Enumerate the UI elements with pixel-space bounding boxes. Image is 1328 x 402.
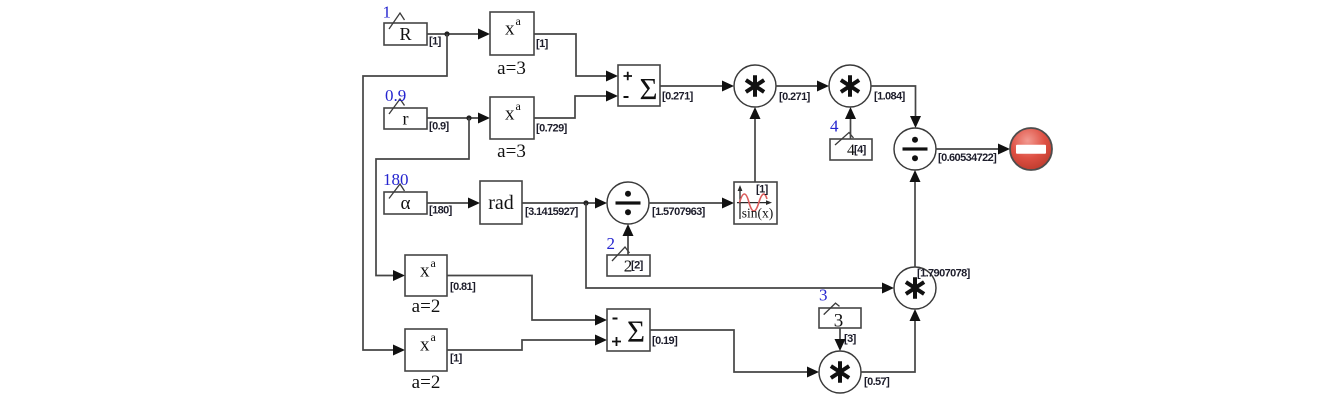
wire multiplier M4 output to multiplier M3 — [861, 309, 921, 372]
wire constant 4 to multiplier M2 — [845, 107, 856, 139]
svg-text:2: 2 — [607, 234, 616, 253]
wire x^a U4 output to sum S2 plus — [447, 335, 607, 351]
constant block alpha — [383, 170, 453, 217]
power block x^a U4 (a=2) — [405, 329, 463, 393]
svg-text:[0.271]: [0.271] — [662, 91, 694, 103]
svg-text:[2]: [2] — [631, 260, 644, 272]
sum block S2 — [607, 309, 678, 351]
svg-text:Σ: Σ — [640, 71, 658, 106]
svg-text:a: a — [516, 14, 522, 28]
constant block 4 — [830, 117, 872, 161]
svg-text:x: x — [505, 19, 515, 40]
divider D1 — [607, 182, 706, 224]
svg-text:[4]: [4] — [854, 144, 867, 156]
svg-text:a=3: a=3 — [497, 141, 526, 162]
svg-text:1: 1 — [383, 3, 392, 22]
svg-text:3: 3 — [819, 286, 828, 305]
wire R branch to x^a U4 — [363, 34, 447, 356]
svg-text:Σ: Σ — [627, 314, 645, 349]
svg-text:3: 3 — [834, 311, 844, 332]
wire rad output to divider D1 — [522, 198, 607, 209]
svg-text:[0.19]: [0.19] — [652, 335, 678, 347]
wire x^a U3 output to sum S2 minus — [447, 276, 607, 326]
svg-text:[1]: [1] — [756, 184, 769, 196]
constant block R — [383, 3, 442, 48]
stop block (red endpoint) — [1010, 128, 1052, 170]
svg-text:[0.9]: [0.9] — [429, 121, 450, 133]
svg-text:α: α — [401, 193, 411, 214]
wire r output to x^a U2 — [427, 113, 490, 124]
wire multiplier M3 output to divider D2 — [910, 170, 921, 267]
wire sum S2 output to multiplier M4 — [650, 330, 819, 378]
svg-text:x: x — [420, 335, 430, 356]
svg-text:x: x — [505, 104, 515, 125]
wire rad branch to multiplier M3 — [586, 203, 894, 294]
wire multiplier M2 output to divider D2 — [871, 86, 921, 128]
svg-text:a=2: a=2 — [412, 372, 441, 393]
multiplier M1 — [734, 65, 811, 107]
svg-text:a: a — [431, 256, 437, 270]
constant block 3 — [819, 286, 861, 346]
sine block sin(x) — [734, 182, 777, 224]
multiplier M3 — [894, 267, 971, 309]
svg-text:[1.084]: [1.084] — [874, 91, 906, 103]
svg-text:[0.271]: [0.271] — [779, 91, 811, 103]
svg-text:[1]: [1] — [536, 38, 549, 50]
svg-text:[1]: [1] — [429, 36, 442, 48]
svg-text:[0.57]: [0.57] — [864, 376, 890, 388]
svg-text:a=2: a=2 — [412, 296, 441, 317]
power block x^a U2 (a=3) — [490, 97, 568, 162]
svg-text:sin(x): sin(x) — [742, 206, 774, 221]
svg-text:[180]: [180] — [429, 205, 453, 217]
svg-text:[1.7907078]: [1.7907078] — [917, 268, 971, 280]
svg-text:a=3: a=3 — [497, 58, 526, 79]
svg-text:r: r — [403, 109, 409, 129]
wire alpha output to rad — [427, 198, 480, 209]
svg-text:[0.60534722]: [0.60534722] — [938, 152, 997, 164]
divider D2 — [894, 128, 997, 170]
wire divider D1 output to sin block — [649, 198, 734, 209]
wire sin output to multiplier M1 — [750, 107, 761, 182]
svg-text:rad: rad — [488, 192, 514, 214]
multiplier M4 — [819, 351, 890, 393]
svg-text:0.9: 0.9 — [385, 86, 406, 105]
svg-text:a: a — [431, 330, 437, 344]
svg-text:[1]: [1] — [450, 353, 463, 365]
wire x^a U1 output to sum S1 plus — [534, 34, 618, 82]
svg-text:[1.5707963]: [1.5707963] — [652, 206, 706, 218]
power block x^a U1 (a=3) — [490, 12, 549, 79]
svg-text:a: a — [516, 99, 522, 113]
multiplier M2 — [829, 65, 906, 107]
wire sum S1 output to multiplier M1 — [660, 81, 734, 92]
svg-text:180: 180 — [383, 170, 409, 189]
wire r branch to x^a U3 — [376, 118, 469, 281]
wire multiplier M1 output to multiplier M2 — [776, 81, 829, 92]
svg-text:4: 4 — [830, 117, 839, 136]
wire constant 2 to divider D1 — [623, 224, 634, 255]
wire divider D2 output to stop block — [936, 144, 1010, 155]
constant block 2 — [607, 234, 651, 276]
svg-text:R: R — [399, 24, 411, 44]
constant block r — [384, 86, 450, 133]
svg-text:[0.729]: [0.729] — [536, 123, 568, 135]
wire x^a U2 output to sum S1 minus — [534, 91, 618, 119]
power block x^a U3 (a=2) — [405, 255, 476, 317]
svg-text:[3]: [3] — [844, 333, 857, 345]
wire constant 3 to multiplier M4 — [835, 328, 846, 351]
wire R output to x^a U1 — [427, 29, 490, 40]
rad converter block — [480, 181, 579, 224]
svg-text:x: x — [420, 261, 430, 282]
sum block S1 — [618, 65, 694, 106]
svg-text:[3.1415927]: [3.1415927] — [525, 206, 579, 218]
svg-text:[0.81]: [0.81] — [450, 281, 476, 293]
